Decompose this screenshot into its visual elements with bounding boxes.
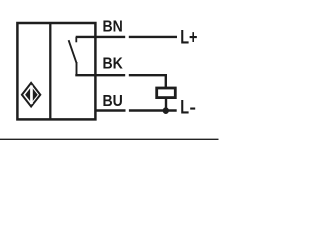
wire BU segment 1	[95, 109, 126, 111]
switch lever lower leg	[76, 62, 78, 75]
svg-text:L+: L+	[180, 25, 197, 48]
wire BN segment 2	[129, 36, 177, 38]
load resistor box	[157, 88, 176, 98]
junction dot	[163, 107, 169, 114]
svg-text:BN: BN	[103, 18, 123, 36]
wire BK segment 1	[75, 74, 125, 76]
label L- minus dash	[190, 108, 195, 110]
sensor wiring schematic	[0, 0, 221, 146]
svg-text:BU: BU	[103, 92, 123, 110]
bottom separator line	[0, 138, 219, 140]
switch contact hook tick	[75, 37, 77, 42]
sensor symbol inner fill	[25, 87, 38, 103]
svg-text:BK: BK	[103, 55, 123, 73]
wire load bottom leg	[165, 99, 167, 111]
wire BU segment 2 to L-	[129, 109, 177, 111]
switch lever	[69, 40, 77, 63]
wire BK segment 2 with corner down to load	[129, 75, 166, 88]
sensor symbol center slot	[30, 86, 33, 104]
sensor symbol diamond outline	[22, 83, 40, 107]
sensor body divider	[49, 23, 51, 119]
wire BN segment 1	[76, 36, 126, 38]
svg-text:L: L	[180, 95, 189, 118]
sensor body outline	[17, 23, 95, 119]
